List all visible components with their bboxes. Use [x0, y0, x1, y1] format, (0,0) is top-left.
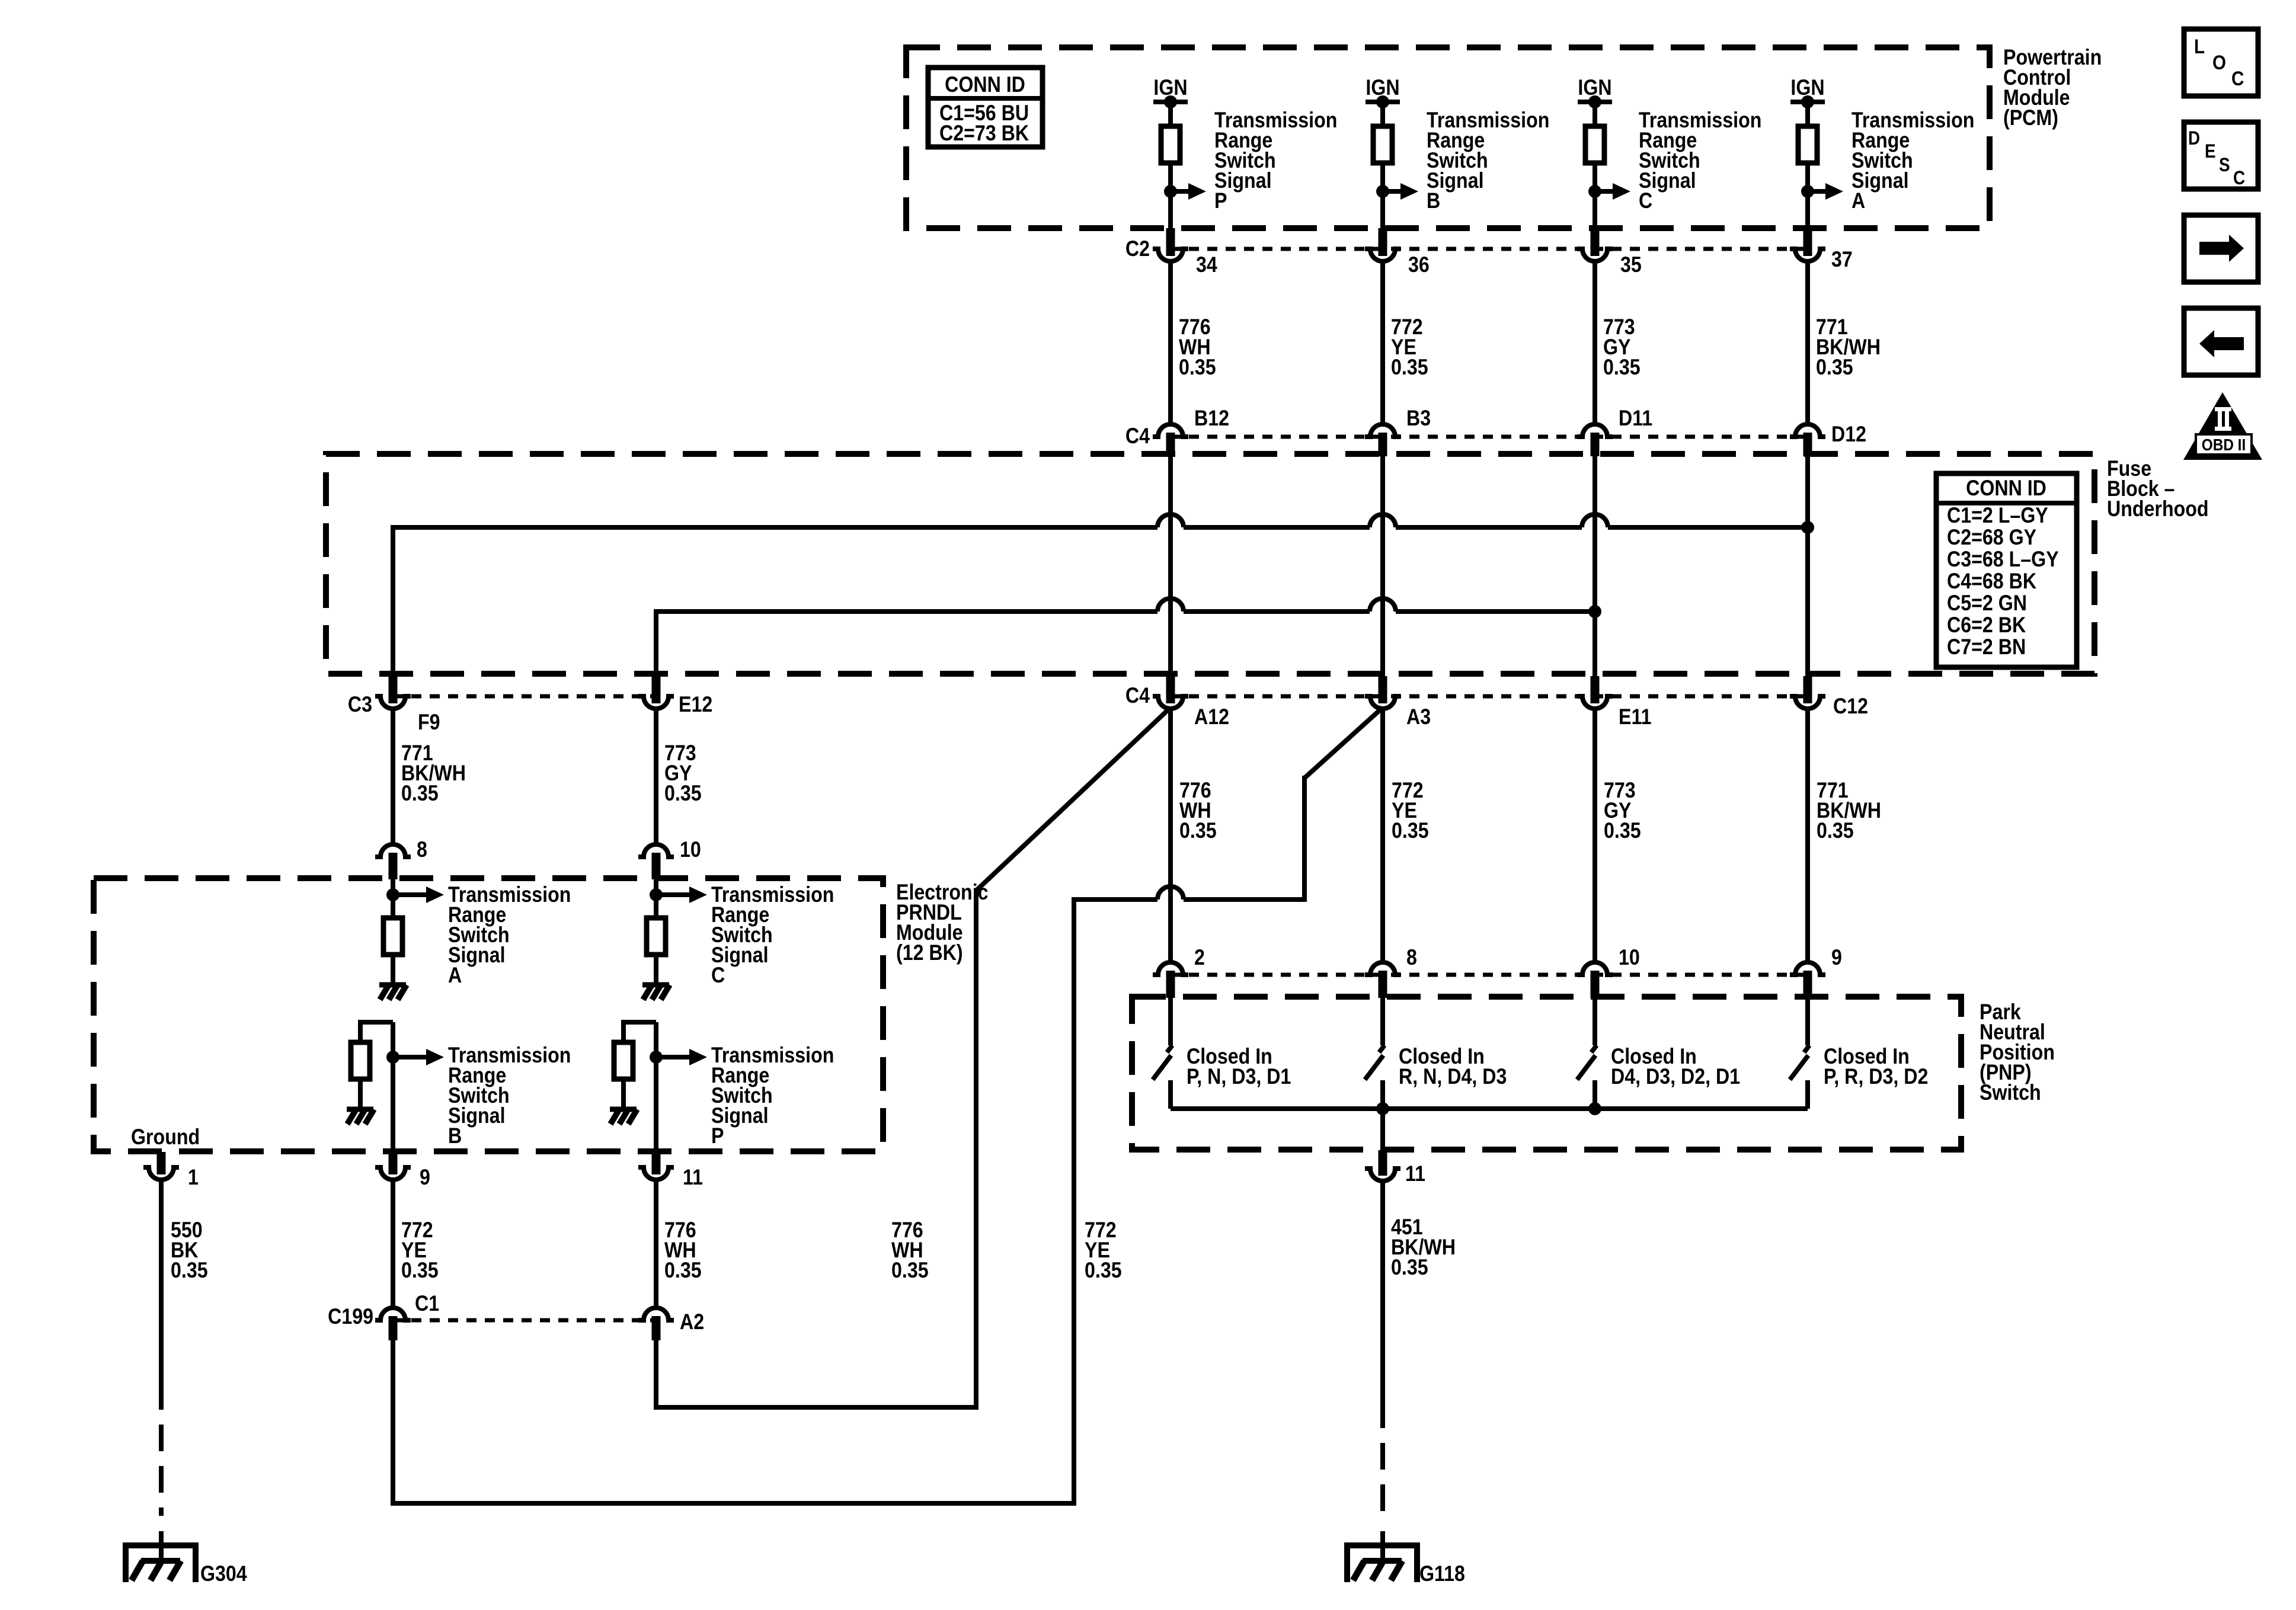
pin label F9 — [418, 710, 440, 735]
svg-text:C3: C3 — [348, 693, 372, 717]
wire pin11 to A2 — [654, 1180, 658, 1308]
Ground label — [131, 1125, 200, 1150]
wire 772 horizontal mid — [1074, 897, 1307, 902]
ground PRNDL row2 col1 — [347, 1109, 374, 1124]
wire PNP bus — [1171, 1106, 1808, 1111]
Powertrain Control Module (PCM) dashed box — [906, 47, 1990, 228]
svg-text:C4=68 BK: C4=68 BK — [1947, 569, 2036, 594]
connector C2 pin 36 stub — [1379, 228, 1387, 256]
IGN bar col3 — [1578, 100, 1612, 104]
svg-text:11: 11 — [683, 1166, 703, 1190]
svg-text:C6=2 BK: C6=2 BK — [1947, 613, 2026, 638]
wire resistor to ground row1 col1 — [391, 955, 395, 985]
connector C2 pin 37 stub — [1803, 228, 1812, 256]
svg-text:G118: G118 — [1419, 1562, 1465, 1586]
ground label G304 — [200, 1562, 247, 1586]
svg-text:0.35: 0.35 — [664, 782, 702, 806]
IGN bar col1 — [1153, 100, 1188, 104]
svg-text:C12: C12 — [1833, 694, 1868, 719]
wire resistor to ground row1 col2 — [654, 955, 658, 985]
connector pin 1 stub — [157, 1152, 166, 1174]
wire A2 riser — [654, 1340, 658, 1410]
connector C4 pin E11 stub — [1591, 676, 1600, 703]
svg-text:C4: C4 — [1125, 684, 1150, 708]
IGN bar col2 — [1366, 100, 1400, 104]
PNP Switch label — [1980, 1000, 2055, 1105]
node PRNDL row1 junction col2 — [650, 888, 663, 901]
svg-text:C: C — [1639, 189, 1652, 213]
wire A3 vertical upper — [1302, 776, 1307, 902]
svg-text:0.35: 0.35 — [664, 1259, 702, 1283]
wire switch out col2 — [1380, 1080, 1385, 1109]
svg-text:A: A — [448, 964, 462, 988]
svg-text:2: 2 — [1194, 946, 1205, 970]
svg-text:C3=68 L–GY: C3=68 L–GY — [1947, 548, 2059, 572]
connector C4 pin C12 cup — [1790, 696, 1825, 709]
svg-text:0.35: 0.35 — [1604, 819, 1641, 843]
wire label 451 BK/WH 0.35 — [1391, 1215, 1456, 1280]
wire label 773 GY 0.35 mid — [1604, 779, 1641, 843]
wire C2 to C4 col3 — [1593, 261, 1597, 424]
connector C4 bottom label — [1125, 684, 1150, 708]
wire C4 bottom to PNP col2 — [1380, 708, 1385, 962]
svg-text:B: B — [448, 1124, 462, 1148]
svg-text:D11: D11 — [1619, 406, 1652, 431]
svg-text:C7=2 BN: C7=2 BN — [1947, 635, 2026, 660]
wire fuse horizontal F9-D12 — [393, 525, 1808, 530]
wire E12 vertical in fuse — [654, 609, 658, 675]
pin label D12 — [1831, 422, 1866, 447]
wire IGN to resistor col2 — [1380, 102, 1385, 126]
wire label 771 BK/WH 0.35 top — [1816, 315, 1881, 380]
switch contact tick col2 — [1379, 1045, 1384, 1052]
wire resistor to PCM edge col4 — [1805, 163, 1810, 228]
signal label col3 — [1639, 108, 1761, 213]
wire IGN to resistor col4 — [1805, 102, 1810, 126]
node H2-D11 junction — [1588, 605, 1601, 618]
svg-text:P, R, D3, D2: P, R, D3, D2 — [1824, 1065, 1928, 1089]
svg-text:C: C — [2233, 168, 2245, 188]
wire label 776 WH 0.35 bottommid — [891, 1218, 929, 1283]
wire fuse horizontal E12-D11 — [656, 609, 1595, 614]
wire C2 to C4 col4 — [1805, 261, 1810, 424]
wire F9 to pin 8 — [391, 709, 395, 844]
pin label D11 — [1619, 406, 1652, 431]
svg-text:37: 37 — [1831, 248, 1853, 272]
svg-text:C: C — [711, 964, 725, 988]
connector pin 11 stub — [652, 1152, 661, 1174]
pin label B12 — [1194, 406, 1229, 431]
Electronic PRNDL Module dashed box — [94, 878, 883, 1151]
connector C4 pin E11 cup — [1577, 696, 1613, 709]
connector pin 8 cup — [375, 844, 411, 857]
connector pin 1 cup — [143, 1167, 179, 1180]
wire IGN to resistor col1 — [1168, 102, 1173, 126]
connector pin 10 stub — [652, 853, 661, 879]
wire label 772 YE 0.35 bottommid — [1085, 1218, 1122, 1283]
Fuse CONN ID table — [1936, 473, 2077, 667]
wire switch feed col1 — [1168, 998, 1173, 1045]
svg-text:OBD II: OBD II — [2202, 435, 2246, 454]
wire IGN to resistor col3 — [1593, 102, 1597, 126]
connector C4 pin C12 stub — [1803, 676, 1812, 703]
connector C199 pin C1 stub — [389, 1316, 398, 1340]
node arrow junction col3 — [1588, 185, 1601, 198]
icon DESC box — [2184, 122, 2258, 189]
pin label 34 — [1196, 253, 1217, 277]
node PRNDL row1 junction col1 — [386, 888, 399, 901]
resistor PCM col3 — [1585, 126, 1604, 163]
pin label 9 — [420, 1166, 430, 1190]
node bus junction pin11 — [1376, 1102, 1389, 1115]
switch contact tick col4 — [1804, 1045, 1809, 1052]
Park Neutral Position (PNP) Switch dashed box — [1132, 997, 1961, 1150]
wire 772 horizontal to C1 — [393, 1501, 1076, 1506]
wire label 773 GY 0.35 top — [1603, 315, 1641, 380]
wire hop H1 col3 — [1582, 514, 1608, 527]
connector C4 pin A3 cup — [1365, 696, 1400, 709]
connector C4 pin D11 stub — [1591, 433, 1600, 456]
signal arrow PRNDL row1 col2 — [656, 886, 707, 903]
wire switch out col3 — [1593, 1080, 1597, 1109]
wire A3 diagonal — [1304, 708, 1383, 778]
signal label PRNDL row1 col2 — [711, 883, 834, 988]
connector C4 pin A12 cup — [1153, 696, 1188, 709]
connector pin 11 cup — [638, 1167, 674, 1180]
IGN feed label col2 — [1366, 76, 1399, 100]
connector pin 8 stub — [389, 853, 398, 879]
wire C1 riser — [391, 1340, 395, 1506]
signal label col1 — [1214, 108, 1337, 213]
svg-text:P: P — [1214, 189, 1227, 213]
connector C4 pin B3 stub — [1379, 433, 1387, 456]
resistor PCM col1 — [1161, 126, 1180, 163]
svg-text:0.35: 0.35 — [1392, 819, 1429, 843]
connector C199 pin A2 stub — [652, 1316, 661, 1340]
svg-text:CONN ID: CONN ID — [945, 73, 1025, 97]
node arrow junction col2 — [1376, 185, 1389, 198]
wire C4 bottom to PNP col1 — [1168, 708, 1173, 962]
svg-text:L: L — [2194, 35, 2205, 57]
svg-text:F9: F9 — [418, 710, 440, 735]
wire C4 bottom to PNP col4 — [1805, 708, 1810, 962]
svg-text:Ground: Ground — [131, 1125, 200, 1150]
switch state label col1 — [1187, 1045, 1291, 1089]
connector pin 10 cup — [638, 844, 674, 857]
connector PNP pin 10 cup — [1577, 962, 1613, 975]
node arrow junction col1 — [1164, 185, 1177, 198]
connector C3 pin E12 cup — [638, 696, 674, 709]
svg-text:1: 1 — [188, 1166, 199, 1190]
wire hop H2 col1 — [1157, 598, 1184, 612]
svg-text:CONN ID: CONN ID — [1966, 476, 2046, 501]
wire bus to pin 11 — [1380, 1109, 1385, 1150]
signal label PRNDL row2 col1 — [448, 1044, 571, 1148]
node IGN dot col2 — [1376, 95, 1389, 108]
svg-text:8: 8 — [1406, 946, 1417, 970]
svg-text:B: B — [1427, 189, 1440, 213]
wire label 772 YE 0.35 top — [1391, 315, 1428, 380]
svg-text:P, N, D3, D1: P, N, D3, D1 — [1187, 1065, 1291, 1089]
wire label 771 BK/WH 0.35 mid — [1817, 779, 1881, 843]
connector C2 pin 35 cup — [1577, 249, 1613, 261]
resistor PRNDL row2 col2 — [614, 1042, 633, 1079]
signal arrow PRNDL row2 col1 — [393, 1049, 444, 1065]
wire PRNDL row2 branch col2 — [623, 1022, 656, 1042]
node arrow junction col4 — [1801, 185, 1814, 198]
connector C3 pin E12 stub — [652, 675, 661, 703]
svg-text:G304: G304 — [200, 1562, 247, 1586]
ground G304 — [126, 1545, 196, 1582]
svg-text:(12 BK): (12 BK) — [896, 941, 963, 965]
icon OBD II triangle — [2183, 392, 2262, 460]
connector C3 pin F9 cup — [375, 696, 411, 709]
signal arrow col1 — [1171, 183, 1206, 200]
ground PRNDL row1 col1 — [379, 985, 407, 1000]
wire pin11 to G118 dashed — [1380, 1401, 1385, 1562]
svg-text:9: 9 — [1831, 946, 1842, 970]
wire label 773 GY 0.35 left — [664, 741, 702, 806]
connector C4 pin D12 cup — [1790, 424, 1825, 437]
pin label C1 — [415, 1292, 439, 1316]
pin label A3 — [1406, 705, 1431, 729]
wire pin1 to G304 solid — [159, 1180, 164, 1383]
svg-text:E11: E11 — [1619, 705, 1651, 729]
pin label B3 — [1406, 406, 1431, 431]
wire label 771 BK/WH 0.35 left — [401, 741, 466, 806]
IGN feed label col4 — [1790, 76, 1824, 100]
svg-text:B12: B12 — [1194, 406, 1229, 431]
signal arrow PRNDL row2 col2 — [656, 1049, 707, 1065]
connector C2 pin 34 cup — [1153, 249, 1188, 261]
svg-text:S: S — [2219, 155, 2230, 175]
wire E12 to pin 10 — [654, 709, 658, 844]
wire hop mid col1 — [1157, 886, 1184, 900]
connector PNP pin 10 stub — [1591, 971, 1600, 998]
connector C2 pin 36 cup — [1365, 249, 1400, 261]
connector C2 dotted line — [1171, 247, 1808, 251]
switch state label col2 — [1399, 1045, 1507, 1089]
wire pin9 to C1 — [391, 1180, 395, 1308]
wire resistor to ground row2 col1 — [358, 1079, 363, 1109]
connector PNP pin 8 stub — [1379, 971, 1387, 998]
signal label PRNDL row1 col1 — [448, 883, 571, 988]
resistor PRNDL row1 col1 — [383, 918, 402, 955]
ground label G118 — [1419, 1562, 1465, 1586]
pin label 35 — [1620, 253, 1642, 277]
pin label 11 PNP — [1405, 1162, 1425, 1186]
wire F9 vertical in fuse — [391, 525, 395, 675]
connector PNP pin 2 stub — [1166, 971, 1175, 998]
signal arrow col3 — [1595, 183, 1630, 200]
wire switch feed col3 — [1593, 998, 1597, 1045]
signal arrow col2 — [1383, 183, 1418, 200]
connector C4 bottom dotted line — [1171, 694, 1808, 699]
wire fuse vertical col2 — [1380, 455, 1385, 676]
svg-text:10: 10 — [680, 838, 701, 862]
svg-text:A: A — [1851, 189, 1865, 213]
svg-text:8: 8 — [417, 838, 427, 862]
resistor PRNDL row2 col1 — [351, 1042, 370, 1079]
svg-text:C4: C4 — [1125, 424, 1150, 449]
svg-text:0.35: 0.35 — [1816, 356, 1853, 380]
connector PNP pin 9 cup — [1790, 962, 1825, 975]
wire hop H1 col2 — [1370, 514, 1396, 527]
wire resistor to PCM edge col3 — [1593, 163, 1597, 228]
svg-text:A3: A3 — [1406, 705, 1431, 729]
svg-text:0.35: 0.35 — [1391, 1256, 1428, 1280]
connector PNP pin 8 cup — [1365, 962, 1400, 975]
wire C4 bottom to PNP col3 — [1593, 708, 1597, 962]
IGN feed label col1 — [1153, 76, 1187, 100]
svg-text:10: 10 — [1619, 946, 1640, 970]
connector C199 dotted line — [393, 1318, 656, 1323]
connector C199 pin A2 cup — [638, 1308, 674, 1320]
pin label A2 — [680, 1310, 704, 1334]
node IGN dot col3 — [1588, 95, 1601, 108]
icon back arrow box — [2184, 308, 2258, 375]
svg-text:(PCM): (PCM) — [2003, 106, 2058, 130]
resistor PRNDL row1 col2 — [647, 918, 666, 955]
svg-text:A2: A2 — [680, 1310, 704, 1334]
svg-text:C2=68 GY: C2=68 GY — [1947, 526, 2036, 550]
pin label 37 — [1831, 248, 1853, 272]
svg-text:0.35: 0.35 — [891, 1259, 929, 1283]
svg-text:D12: D12 — [1831, 422, 1866, 447]
node PRNDL row2 junction col2 — [650, 1051, 663, 1064]
IGN feed label col3 — [1578, 76, 1611, 100]
wire 776 vertical — [974, 888, 978, 1410]
svg-text:A12: A12 — [1194, 705, 1229, 729]
pin label PNP 9 — [1831, 946, 1842, 970]
wire resistor to PCM edge col2 — [1380, 163, 1385, 228]
connector pin 11 stub — [1379, 1150, 1387, 1176]
pin label PNP 2 — [1194, 946, 1205, 970]
svg-text:0.35: 0.35 — [401, 782, 439, 806]
svg-text:C: C — [2231, 67, 2244, 89]
svg-text:D: D — [2188, 128, 2200, 149]
wire PRNDL row2 main col1 — [391, 1022, 395, 1152]
svg-text:36: 36 — [1408, 253, 1430, 277]
connector PNP pin 2 cup — [1153, 962, 1188, 975]
wire label 550 BK 0.35 — [171, 1218, 208, 1283]
wire 776 horizontal to A2 — [656, 1405, 978, 1410]
node IGN dot col4 — [1801, 95, 1814, 108]
signal arrow col4 — [1808, 183, 1843, 200]
wire pin1 to G304 dashed — [159, 1383, 164, 1562]
switch contact tick col1 — [1167, 1045, 1172, 1052]
PCM CONN ID table — [928, 68, 1043, 147]
connector C4 pin B12 cup — [1153, 424, 1188, 437]
connector pin 11 cup — [1365, 1169, 1400, 1181]
wire hop H2 col2 — [1370, 598, 1396, 612]
wire C2 to C4 col2 — [1380, 261, 1385, 424]
pin label 10 — [680, 838, 701, 862]
svg-text:B3: B3 — [1406, 406, 1431, 431]
pin label PNP 8 — [1406, 946, 1417, 970]
ground PRNDL row1 col2 — [642, 985, 670, 1000]
node H1-D12 junction — [1801, 521, 1814, 534]
connector C4 pin A12 stub — [1166, 676, 1175, 703]
wire label 776 WH 0.35 top — [1179, 315, 1216, 380]
svg-text:Switch: Switch — [1980, 1081, 2041, 1105]
svg-text:R, N, D4, D3: R, N, D4, D3 — [1399, 1065, 1507, 1089]
pin label A12 — [1194, 705, 1229, 729]
connector C4 pin A3 stub — [1379, 676, 1387, 703]
svg-text:C199: C199 — [328, 1305, 373, 1329]
switch state label col3 — [1611, 1045, 1740, 1089]
wire label 772 YE 0.35 bottomleft — [401, 1218, 439, 1283]
pin label C12 — [1833, 694, 1868, 719]
node PRNDL row2 junction col1 — [386, 1051, 399, 1064]
switch blade col4 — [1790, 1055, 1808, 1080]
svg-text:E12: E12 — [679, 693, 712, 717]
connector pin 9 cup — [375, 1167, 411, 1180]
icon forward arrow box — [2184, 215, 2258, 282]
switch blade col1 — [1153, 1055, 1171, 1080]
connector PNP pin 9 stub — [1803, 971, 1812, 998]
PCM label — [2003, 46, 2102, 130]
wire pin11 to G118 solid — [1380, 1181, 1385, 1401]
PRNDL Module label — [896, 881, 989, 965]
connector pin 9 stub — [389, 1152, 398, 1174]
wire PRNDL row2 main col2 — [654, 1022, 658, 1152]
Fuse Block - Underhood dashed box — [326, 454, 2094, 674]
svg-text:C5=2 GN: C5=2 GN — [1947, 591, 2027, 616]
connector C2 pin 34 stub — [1166, 228, 1175, 256]
switch blade col2 — [1365, 1055, 1383, 1080]
pin label PNP 10 — [1619, 946, 1640, 970]
svg-text:0.35: 0.35 — [1817, 819, 1854, 843]
signal label PRNDL row2 col2 — [711, 1044, 834, 1148]
wire switch feed col4 — [1805, 998, 1810, 1045]
connector C199 label — [328, 1305, 373, 1329]
Fuse Block label — [2107, 457, 2209, 521]
wire fuse vertical col4 — [1805, 455, 1810, 676]
svg-text:C2: C2 — [1125, 237, 1150, 261]
svg-text:0.35: 0.35 — [1085, 1259, 1122, 1283]
signal arrow PRNDL row1 col1 — [393, 886, 444, 903]
connector C3 label — [348, 693, 372, 717]
wire hop H1 col1 — [1157, 514, 1184, 527]
wire resistor to PCM edge col1 — [1168, 163, 1173, 228]
node IGN dot col1 — [1164, 95, 1177, 108]
connector C2 pin 35 stub — [1591, 228, 1600, 256]
connector C4 pin B12 stub — [1166, 433, 1175, 456]
svg-text:0.35: 0.35 — [401, 1259, 439, 1283]
svg-text:P: P — [711, 1124, 724, 1148]
wire fuse vertical col3 — [1593, 455, 1597, 676]
wire 772 vertical — [1072, 897, 1076, 1506]
wire PRNDL row1 col1 — [391, 879, 395, 918]
resistor PCM col2 — [1373, 126, 1392, 163]
pin label 8 — [417, 838, 427, 862]
wire C2 to C4 col1 — [1168, 261, 1173, 424]
wire resistor to ground row2 col2 — [621, 1079, 626, 1109]
connector C3 dotted line — [393, 694, 656, 699]
signal label col4 — [1851, 108, 1974, 213]
connector C4 top dotted line — [1171, 435, 1808, 439]
ground PRNDL row2 col2 — [610, 1109, 637, 1124]
wire switch feed col2 — [1380, 998, 1385, 1045]
connector C4 pin B3 cup — [1365, 424, 1400, 437]
svg-text:E: E — [2205, 141, 2216, 162]
svg-text:D4, D3, D2, D1: D4, D3, D2, D1 — [1611, 1065, 1740, 1089]
ground G118 — [1347, 1545, 1417, 1582]
pin label E12 — [679, 693, 712, 717]
svg-text:11: 11 — [1405, 1162, 1425, 1186]
svg-text:0.35: 0.35 — [1179, 819, 1217, 843]
